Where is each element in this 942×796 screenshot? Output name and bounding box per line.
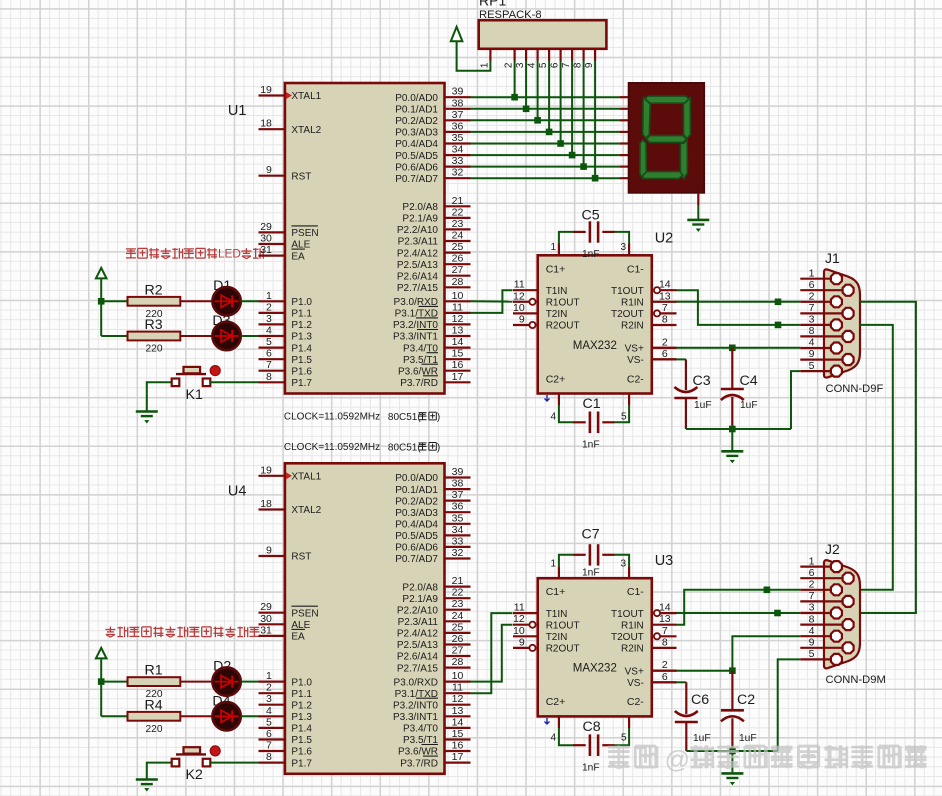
svg-text:2: 2 (266, 301, 272, 313)
LED D3 (212, 322, 240, 350)
wire VS- to C6 (677, 681, 687, 683)
U1 pin 22 P2.1/A9 (445, 217, 471, 219)
wire C1 right (615, 405, 630, 422)
svg-text:1uF: 1uF (740, 400, 758, 411)
svg-text:P2.6/A14: P2.6/A14 (397, 271, 439, 282)
svg-text:1: 1 (809, 267, 815, 279)
U4 pin 5 P1.4 (259, 727, 285, 729)
J1 pin 2 (800, 301, 836, 303)
U2 pin 1 C1+ stub (558, 244, 560, 256)
wire VS+ to J1 pin4 (677, 347, 801, 349)
svg-text:1uF: 1uF (693, 733, 711, 744)
wire P0.7 to display segment (471, 177, 620, 179)
U4 pin 8 P1.7 (259, 761, 285, 763)
svg-text:38: 38 (452, 97, 464, 109)
svg-text:25: 25 (452, 621, 464, 633)
svg-text:P2.0/A8: P2.0/A8 (402, 582, 438, 593)
ground under C2 (721, 772, 743, 775)
svg-text:P1.0: P1.0 (291, 677, 312, 688)
svg-text:12: 12 (513, 290, 525, 302)
U4 pin 15 P3.5/T1 (445, 738, 471, 740)
svg-text:P0.3/AD3: P0.3/AD3 (395, 508, 438, 519)
svg-text:16: 16 (452, 359, 464, 371)
svg-text:2: 2 (266, 682, 272, 694)
svg-text:14: 14 (452, 716, 464, 728)
U4 pin 31 EA (259, 635, 285, 637)
U1 pin 34 P0.5/AD5 (445, 154, 471, 156)
svg-text:33: 33 (452, 535, 464, 547)
U4 pin 26 P2.5/A13 (445, 643, 471, 645)
U4 pin 6 P1.5 (259, 738, 285, 740)
lead R1 to D2 (180, 681, 212, 683)
svg-text:P3.3/INT1: P3.3/INT1 (393, 712, 438, 723)
svg-text:1nF: 1nF (582, 762, 600, 773)
U1 pin 15 P3.5/T1 (445, 358, 471, 360)
svg-text:R2OUT: R2OUT (546, 321, 580, 332)
svg-text:P0.1/AD1: P0.1/AD1 (395, 105, 438, 116)
svg-text:21: 21 (452, 575, 464, 587)
wire U2 T1OUT to J1 pin3 (677, 290, 801, 325)
capacitor C5 (589, 221, 592, 242)
svg-text:4: 4 (266, 705, 272, 717)
junction RP1 pin8 (580, 163, 587, 170)
wire J1 pin2 to J2 pin3 (crossover right side) (859, 302, 916, 613)
U4 pin 7 P1.6 (259, 750, 285, 752)
svg-text:U2: U2 (655, 230, 674, 246)
svg-text:T2OUT: T2OUT (611, 309, 644, 320)
U1 pin 9 RST (259, 175, 285, 177)
svg-text:1nF: 1nF (582, 440, 600, 451)
J1 pin 7 (800, 312, 848, 314)
U1 pin 17 P3.7/RD (445, 381, 471, 383)
svg-text:XTAL1: XTAL1 (291, 472, 321, 483)
U4 pin 25 P2.4/A12 (445, 632, 471, 634)
svg-text:P0.0/AD0: P0.0/AD0 (395, 473, 438, 484)
svg-text:K1: K1 (186, 387, 203, 403)
U4 pin 11 P3.1/TXD (445, 692, 471, 694)
lead R4 to D4 (180, 715, 212, 717)
svg-text:36: 36 (452, 120, 464, 132)
svg-text:XTAL2: XTAL2 (291, 505, 321, 516)
svg-text:9: 9 (266, 545, 272, 557)
svg-text:VS+: VS+ (625, 344, 644, 355)
svg-text:T2IN: T2IN (546, 309, 568, 320)
J1 pin 3 (800, 324, 836, 326)
svg-text:32: 32 (452, 167, 464, 179)
svg-text:P0.2/AD2: P0.2/AD2 (395, 116, 438, 127)
C1 left lead (573, 421, 586, 423)
svg-text:P1.6: P1.6 (291, 747, 312, 758)
svg-text:PSEN: PSEN (291, 228, 318, 239)
svg-text:5: 5 (266, 336, 272, 348)
wire U4 P3.0/RXD to U3 R1OUT (471, 625, 513, 682)
U3 pin 7 T2OUT (660, 635, 676, 637)
svg-text:C3: C3 (693, 373, 711, 389)
wire RP1 pin9 to P0.7 net (594, 61, 596, 179)
wire display to ground (697, 205, 699, 219)
U4 pin 38 P0.1/AD1 (445, 488, 471, 490)
U2 pin 2 VS+ (652, 347, 677, 349)
wire D2 to U4 P1.0 (241, 681, 259, 683)
svg-text:P3.4/T0: P3.4/T0 (403, 724, 438, 735)
wire P0.4 to display segment (471, 143, 620, 145)
svg-text:33: 33 (452, 155, 464, 167)
svg-text:P1.0: P1.0 (291, 297, 312, 308)
U1 pin 28 P2.7/A15 (445, 286, 471, 288)
svg-text:C2-: C2- (627, 696, 644, 708)
svg-text:P0.5/AD5: P0.5/AD5 (395, 531, 438, 542)
C5 left lead (573, 231, 586, 233)
resistor R2 (128, 297, 181, 306)
wire P0.1 to display segment (471, 108, 620, 110)
svg-text:13: 13 (452, 325, 464, 337)
svg-text:80C51(: 80C51( (388, 442, 421, 453)
wire RP1 pin7 to P0.5 net (571, 61, 573, 156)
svg-text:P1.3: P1.3 (291, 712, 312, 723)
svg-text:29: 29 (260, 601, 272, 613)
U4 pin 27 P2.6/A14 (445, 655, 471, 657)
svg-text:11: 11 (452, 682, 463, 694)
junction RP1 pin3 (523, 106, 530, 113)
svg-text:RP1: RP1 (479, 0, 506, 9)
svg-text:8: 8 (266, 371, 272, 383)
junction on J2 pin3 net (774, 610, 781, 617)
svg-text:7: 7 (266, 740, 272, 752)
U2 pin 9 R2OUT (513, 324, 529, 326)
svg-text:17: 17 (452, 751, 464, 763)
resistor R1 (128, 677, 181, 686)
svg-text:P0.5/AD5: P0.5/AD5 (395, 151, 438, 162)
svg-text:P1.5: P1.5 (291, 735, 312, 746)
svg-text:9: 9 (809, 637, 815, 649)
wire rail to R3 row (101, 335, 127, 337)
J1 pin 4 (800, 347, 836, 349)
svg-text:32: 32 (452, 547, 464, 559)
U1 pin 18 XTAL2 (259, 128, 285, 130)
svg-text:15: 15 (452, 348, 464, 360)
svg-text:P1.2: P1.2 (291, 320, 312, 331)
svg-text:12: 12 (452, 693, 464, 705)
wire D3 to U1 P1.3 (241, 335, 259, 337)
wire U1 P3.1/TXD to U2 T1IN (471, 290, 513, 313)
watermark zhihu text (608, 745, 927, 774)
svg-text:R1IN: R1IN (621, 298, 644, 309)
svg-text:K2: K2 (186, 767, 203, 783)
svg-text:T2IN: T2IN (546, 632, 568, 643)
U4 pin 13 P3.3/INT1 (445, 715, 471, 717)
svg-text:): ) (437, 442, 440, 453)
svg-text:10: 10 (452, 290, 464, 302)
RP1 pin 8 (582, 49, 584, 61)
U2 pin 14 T1OUT (660, 289, 676, 291)
svg-text:4: 4 (809, 337, 815, 349)
svg-text:CONN-D9F: CONN-D9F (826, 383, 884, 395)
svg-text:1nF: 1nF (582, 249, 600, 260)
80C51 MCU U1 (285, 83, 445, 394)
svg-text:15: 15 (452, 728, 464, 740)
svg-text:P0.2/AD2: P0.2/AD2 (395, 496, 438, 507)
svg-text:R1OUT: R1OUT (546, 620, 580, 631)
svg-text:19: 19 (260, 84, 272, 96)
display segment c (bottom-right) (680, 140, 687, 179)
C8 right lead (602, 744, 614, 746)
svg-text:J2: J2 (825, 541, 840, 557)
svg-text:P1.4: P1.4 (291, 724, 312, 735)
svg-text:P2.3/A11: P2.3/A11 (398, 237, 439, 248)
U4 pin 3 P1.2 (259, 704, 285, 706)
svg-text:4: 4 (527, 62, 538, 68)
svg-text:30: 30 (260, 233, 272, 245)
svg-text:U4: U4 (228, 483, 247, 499)
display pin stub seg 5 (619, 154, 629, 156)
svg-text:T1IN: T1IN (546, 286, 568, 297)
svg-text:26: 26 (452, 253, 464, 265)
U1 pin 26 P2.5/A13 (445, 263, 471, 265)
svg-text:P1.7: P1.7 (291, 378, 312, 389)
push button K2 (176, 753, 206, 755)
U1 pin 8 P1.7 (259, 381, 285, 383)
svg-text:C2-: C2- (627, 373, 644, 385)
svg-text:3: 3 (515, 62, 526, 68)
wire C5 left (559, 232, 573, 244)
display segment d (bottom) (643, 172, 683, 179)
svg-text:T2OUT: T2OUT (611, 632, 644, 643)
RP1 pin 2 (513, 49, 515, 61)
U4 pin 37 P0.2/AD2 (445, 500, 471, 502)
svg-text:3: 3 (620, 242, 626, 253)
wire power to P1.0 rail (100, 278, 102, 336)
svg-text:CLOCK=11.0592MHz: CLOCK=11.0592MHz (284, 442, 380, 453)
U2 VS- stub (652, 358, 677, 360)
U1 pin 32 P0.7/AD7 (445, 177, 471, 179)
display segment a (top) (644, 96, 689, 103)
svg-text:220: 220 (146, 724, 163, 735)
U3 pin 6 VS- (652, 681, 677, 683)
svg-text:14: 14 (452, 336, 464, 348)
U3 pin 1 C1+ stub (558, 566, 560, 578)
C7 left lead (573, 554, 586, 556)
wire RP1 pin1 to power arrow (457, 41, 491, 71)
J2 pin 9 (800, 647, 848, 649)
U4 pin 29 PSEN (259, 612, 285, 614)
display pin stub seg 4 (619, 142, 629, 144)
display pin stub seg 7 (619, 177, 629, 179)
svg-text:P2.3/A11: P2.3/A11 (398, 617, 439, 628)
svg-text:14: 14 (659, 279, 671, 291)
svg-text:P0.4/AD4: P0.4/AD4 (395, 139, 438, 150)
junction lower ground rail (729, 748, 736, 755)
svg-text:6: 6 (809, 567, 815, 579)
J2 pin 4 (800, 635, 836, 637)
svg-text:P1.1: P1.1 (291, 689, 312, 700)
U3 pin 13 R1IN (652, 624, 677, 626)
svg-text:10: 10 (513, 302, 525, 314)
wire U4 P3.1/TXD to U3 T1IN (471, 613, 513, 693)
wire VS+ to C2/J2pin4 junction (677, 670, 733, 672)
capacitor C6 (675, 711, 698, 716)
svg-text:4: 4 (266, 325, 272, 337)
U4 pin 30 ALE (259, 623, 285, 625)
U1 pin 2 P1.1 (259, 312, 285, 314)
svg-text:9: 9 (519, 314, 525, 326)
U2 pin 4 C2+ stub (558, 394, 560, 406)
U2 pin 5 C2- stub (628, 394, 630, 406)
red annotation lower: control text (109, 627, 111, 632)
wire K1 left to ground (147, 382, 172, 410)
svg-text:4: 4 (809, 625, 815, 637)
svg-text:P3.2/INT0: P3.2/INT0 (393, 700, 438, 711)
wire VS- to C3 (677, 358, 686, 360)
U4 pin 14 P3.4/T0 (445, 727, 471, 729)
svg-text:P2.7/A15: P2.7/A15 (397, 283, 439, 294)
svg-text:24: 24 (452, 230, 464, 242)
wire power to P1.0 rail lower (100, 658, 102, 716)
display segment g (middle) (646, 136, 686, 143)
lead R3 to D3 (180, 335, 212, 337)
svg-text:34: 34 (452, 144, 464, 156)
svg-text:R4: R4 (145, 697, 163, 713)
U1 pin 21 P2.0/A8 (445, 205, 471, 207)
svg-text:8: 8 (662, 636, 668, 648)
U4 pin 18 XTAL2 (259, 508, 285, 510)
U4 pin 28 P2.7/A15 (445, 666, 471, 668)
U3 pin 3 C1- stub (628, 566, 630, 578)
svg-text:28: 28 (452, 656, 464, 668)
svg-text:5: 5 (538, 62, 549, 68)
svg-text:RST: RST (291, 171, 311, 182)
svg-text:26: 26 (452, 633, 464, 645)
svg-text:R3: R3 (145, 317, 163, 333)
svg-text:24: 24 (452, 610, 464, 622)
wire to ground symbol (731, 429, 733, 450)
J2 pin 6 (800, 577, 848, 579)
7-segment display body (629, 83, 704, 193)
wire RP1 pin8 to P0.6 net (583, 61, 585, 167)
wire RP1 pin3 to P0.1 net (525, 61, 527, 109)
svg-text:10: 10 (513, 625, 525, 637)
svg-text:VS+: VS+ (625, 666, 644, 677)
svg-text:11: 11 (514, 602, 525, 614)
junction RP1 pin4 (534, 117, 541, 124)
svg-text:R2IN: R2IN (621, 321, 644, 332)
J2 pin 1 (800, 565, 836, 567)
U1 pin 6 P1.5 (259, 358, 285, 360)
wire U3 R1IN to J2 pin2 (677, 590, 801, 625)
junction on J2 pin2 net (764, 587, 771, 594)
svg-text:38: 38 (452, 478, 464, 490)
U1 XTAL1 clock marker (286, 92, 292, 99)
C5 right lead (602, 231, 614, 233)
svg-text:P0.6/AD6: P0.6/AD6 (395, 162, 438, 173)
wire C7 left (559, 555, 573, 567)
RP1 pin 6 (559, 49, 561, 61)
U1 pin 13 P3.3/INT1 (445, 335, 471, 337)
U1 pin 19 XTAL1 (259, 94, 285, 96)
svg-text:C1-: C1- (627, 263, 644, 275)
svg-text:P0.7/AD7: P0.7/AD7 (395, 554, 438, 565)
junction RP1 pin9 (592, 175, 599, 182)
U1 pin 4 P1.3 (259, 335, 285, 337)
svg-text:C1: C1 (583, 396, 601, 412)
wire C7 right (615, 555, 630, 567)
svg-text:29: 29 (260, 221, 272, 233)
U4 pin 16 P3.6/WR (445, 750, 471, 752)
wire C8 right (615, 728, 630, 745)
svg-text:7: 7 (809, 590, 815, 602)
wire junction to R2 (101, 300, 127, 302)
svg-text:C1-: C1- (627, 586, 644, 598)
U3 pin 14 T1OUT (660, 612, 676, 614)
U1 pin 25 P2.4/A12 (445, 252, 471, 254)
U4 pin 19 XTAL1 (259, 475, 285, 477)
red annotation upper: control text (126, 248, 136, 250)
push button K1 (176, 373, 206, 375)
display segment e (bottom-left) (640, 140, 647, 179)
svg-text:7: 7 (809, 302, 815, 314)
svg-text:CLOCK=11.0592MHz: CLOCK=11.0592MHz (284, 412, 380, 423)
U4 pin 4 P1.3 (259, 715, 285, 717)
svg-text:37: 37 (452, 489, 464, 501)
svg-text:8: 8 (809, 325, 815, 337)
wire rail to J2 pin5 (778, 659, 801, 751)
svg-text:23: 23 (452, 598, 464, 610)
U1 pin 16 P3.6/WR (445, 370, 471, 372)
svg-text:7: 7 (266, 359, 272, 371)
wire D1 to U1 P1.0 (241, 300, 259, 302)
U3 pin 4 C2+ stub (558, 716, 560, 728)
U1 pin 24 P2.3/A11 (445, 240, 471, 242)
J2 pin 5 (800, 658, 836, 660)
U1 pin 1 P1.0 (259, 300, 285, 302)
svg-text:C4: C4 (740, 373, 758, 389)
ground under K1 (136, 410, 158, 413)
svg-text:R1IN: R1IN (621, 620, 644, 631)
svg-text:23: 23 (452, 218, 464, 230)
svg-text:12: 12 (452, 313, 464, 325)
svg-text:39: 39 (452, 466, 464, 478)
U3 pin 2 VS+ (652, 670, 677, 672)
ground under K2 (136, 778, 158, 781)
svg-text:P2.0/A8: P2.0/A8 (402, 202, 438, 213)
svg-text:3: 3 (620, 559, 626, 570)
svg-text:18: 18 (260, 498, 272, 510)
svg-text:5: 5 (809, 648, 815, 660)
wire C5 right (615, 232, 630, 244)
U3 pin 9 R2OUT (513, 647, 529, 649)
display common pin (697, 193, 699, 205)
U1 pin 11 P3.1/TXD (445, 312, 471, 314)
svg-text:9: 9 (809, 348, 815, 360)
RP1 pin 7 (571, 49, 573, 61)
origin marker near U2 pin4 (545, 395, 550, 401)
U1 pin 7 P1.6 (259, 370, 285, 372)
wire C8 left (559, 728, 573, 745)
svg-text:P1.4: P1.4 (291, 343, 312, 354)
junction on pin3 net (775, 322, 782, 329)
svg-text:C2+: C2+ (546, 373, 566, 385)
svg-text:1nF: 1nF (582, 568, 600, 579)
U2 pin 13 R1IN (652, 301, 677, 303)
wire RP1 pin6 to P0.4 net (560, 61, 562, 144)
svg-text:RST: RST (291, 552, 311, 563)
wire P0.6 to display segment (471, 166, 620, 168)
svg-text:7: 7 (662, 625, 668, 637)
svg-text:9: 9 (584, 62, 595, 68)
wire K2 left to ground (147, 763, 172, 779)
junction RP1 pin2 (511, 94, 518, 101)
U1 pin 36 P0.3/AD3 (445, 131, 471, 133)
svg-text:P1.5: P1.5 (291, 355, 312, 366)
